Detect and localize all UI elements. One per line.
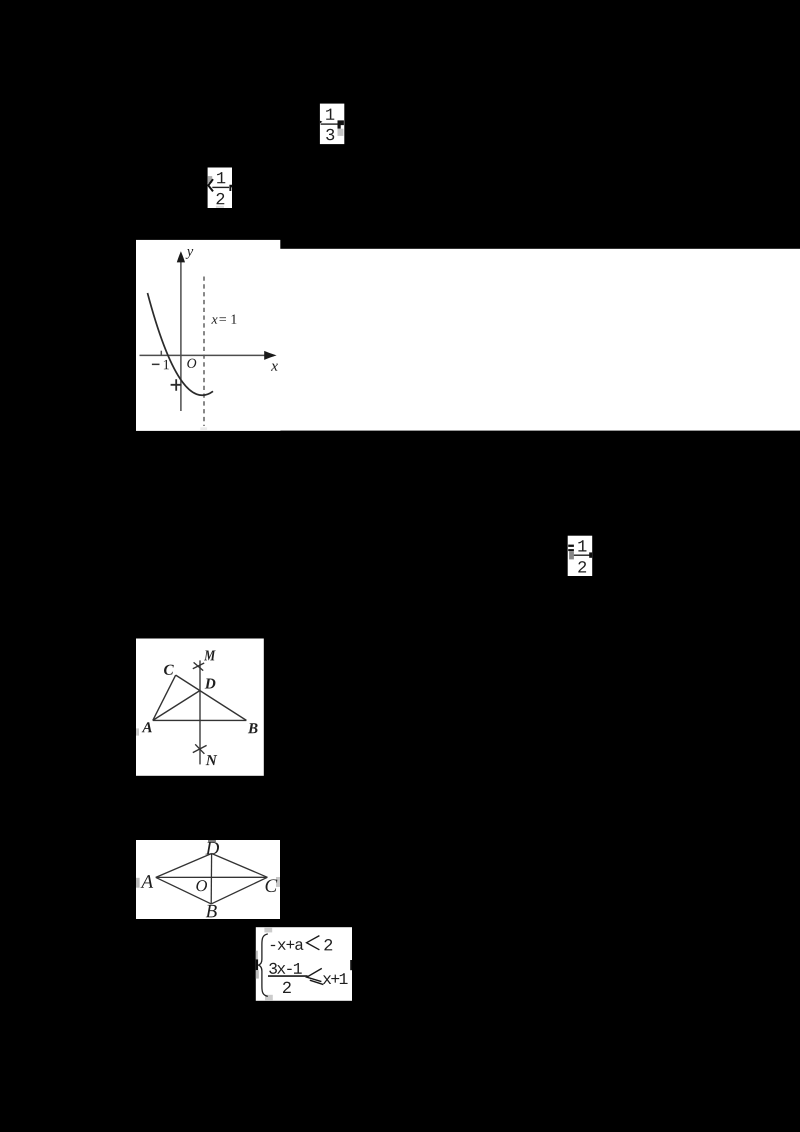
artifact left gray patch <box>208 176 213 183</box>
artifact left black triangle <box>320 121 323 124</box>
fraction 1/2 bar <box>573 555 590 556</box>
origin label O <box>187 359 196 368</box>
label N <box>206 755 218 765</box>
label M <box>204 650 216 660</box>
artifact bottom gray <box>265 995 273 1001</box>
left curly brace <box>259 934 268 997</box>
fraction 1/3 denominator 3 <box>326 129 334 141</box>
fraction 1/3 numerator 1 <box>326 109 334 120</box>
segment AD <box>153 691 200 721</box>
plus mark on curve <box>171 379 182 391</box>
artifact left edge gray <box>136 728 139 735</box>
artifact right black blob <box>337 120 343 128</box>
fraction 1/2 numerator 1 <box>217 172 225 183</box>
rhombus side AD <box>156 854 212 878</box>
graph figure white background (wide band) <box>280 249 800 431</box>
label x=1 <box>211 317 217 323</box>
row1 expression -x+a <box>271 941 304 950</box>
fraction 1/3 bar <box>321 123 338 124</box>
label B <box>206 905 217 917</box>
rhombus figure white box <box>136 840 280 919</box>
artifact left edge marks <box>256 951 258 960</box>
row1 constant 2 <box>324 939 332 950</box>
y label <box>186 249 194 259</box>
row2 fraction bar <box>268 975 308 977</box>
label C <box>266 879 278 892</box>
label C <box>164 665 174 675</box>
gray patch below dashed line <box>200 427 207 430</box>
dashed line x=1 <box>203 277 205 427</box>
artifact right edge mark <box>350 960 352 970</box>
diagonal AC <box>156 876 268 878</box>
x-axis <box>140 354 275 356</box>
label B <box>248 723 258 733</box>
artifact top gray <box>264 927 272 932</box>
rhombus side DC <box>212 854 268 878</box>
perpendicular bisector MN <box>199 660 201 764</box>
row2 less-equal slanted sign <box>307 968 324 984</box>
graph figure white background (left tall part) <box>136 240 280 431</box>
tick at -1 <box>160 351 162 356</box>
rhombus side CB <box>211 877 267 904</box>
row2 expression x+1 <box>323 973 348 984</box>
side AB <box>153 719 247 721</box>
inequality system white box <box>256 927 352 1001</box>
fraction 1/2 denominator 2 <box>216 193 224 204</box>
artifact left equals bars <box>568 545 574 547</box>
arc cross mark bottom <box>193 744 207 754</box>
label D <box>205 679 216 689</box>
fraction 1/3 white box <box>320 104 344 145</box>
artifact overline above D <box>208 840 216 841</box>
row1 less-than sign <box>307 936 320 950</box>
parabola <box>148 293 214 395</box>
fraction 1/2 bar <box>212 187 229 188</box>
fraction 1/2 numerator 1 <box>578 540 586 551</box>
label D <box>205 842 219 854</box>
artifact left black angle <box>208 179 213 191</box>
label O <box>196 880 207 891</box>
y-axis <box>180 254 182 411</box>
artifact right gray patch <box>338 129 344 136</box>
artifact left edge gray <box>136 878 140 888</box>
x-axis arrowhead <box>264 351 276 360</box>
label A <box>140 875 153 888</box>
y-axis arrowhead <box>177 251 185 262</box>
artifact left gray <box>569 551 574 559</box>
segment CB through D <box>176 675 247 720</box>
artifact right black mark <box>229 185 232 191</box>
label -1 <box>152 364 160 366</box>
artifact bottom gray <box>216 206 224 208</box>
arc cross mark top <box>193 662 204 670</box>
x label <box>271 364 278 371</box>
rhombus side BA <box>156 877 211 904</box>
artifact right edge gray <box>276 877 280 887</box>
label A <box>142 722 152 732</box>
fraction 1/2 (second) white box <box>568 536 593 576</box>
row2 numerator 3x-1 <box>269 963 302 974</box>
diagonal DB <box>210 854 212 904</box>
triangle construction figure white box <box>136 639 264 776</box>
fraction 1/2 denominator 2 <box>578 561 586 572</box>
row2 denominator 2 <box>283 982 291 993</box>
side AC <box>153 675 176 720</box>
fraction 1/2 (first) white box <box>208 168 233 209</box>
artifact right black mark <box>589 552 592 557</box>
